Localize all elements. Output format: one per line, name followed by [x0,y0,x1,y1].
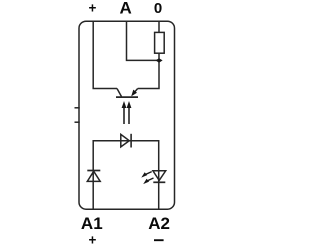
svg-text:0: 0 [154,0,162,17]
transistor Q1 base bar [116,96,138,98]
light arrow shaft right [128,107,130,124]
LED D3 triangle [153,171,166,181]
diode D2 cathode bar [87,170,100,172]
node junction diamond [156,58,163,63]
LED emission arrow lower [143,179,149,184]
LED D3 cathode bar [153,181,165,183]
input rail wire with corners [93,141,159,210]
wire: terminal 0 down to resistor [158,21,160,32]
light arrowhead right [127,101,132,108]
svg-text:+: + [88,233,96,248]
wire: terminal + down to collector corner [93,21,117,88]
transistor Q1 emitter arrowhead [131,90,137,97]
wire: terminal A down and right to node [127,21,160,60]
wire: resistor lead to node [158,53,160,60]
label minus (bottom) [154,239,164,241]
svg-text:A1: A1 [81,214,103,233]
case tick mark lower [75,121,80,123]
diode D1 cathode bar [130,134,132,148]
svg-text:A2: A2 [148,214,170,233]
LED emission arrow upper shaft [145,172,151,175]
wire: node down to emitter corner [138,60,159,88]
light arrowhead left [122,101,127,108]
diode D2 (zener, A1 branch) [87,171,100,181]
LED emission arrow lower shaft [147,178,153,181]
transistor Q1 collector diagonal [117,89,122,97]
resistor R [155,32,165,53]
svg-text:A: A [119,0,131,17]
diode D1 (series, on rail) [121,134,130,147]
transistor Q1 emitter diagonal [134,89,138,94]
relay body outline [79,21,175,209]
svg-text:+: + [89,1,97,16]
light arrow shaft left [123,107,125,124]
case tick mark upper [75,107,80,109]
LED emission arrow upper [141,172,147,177]
